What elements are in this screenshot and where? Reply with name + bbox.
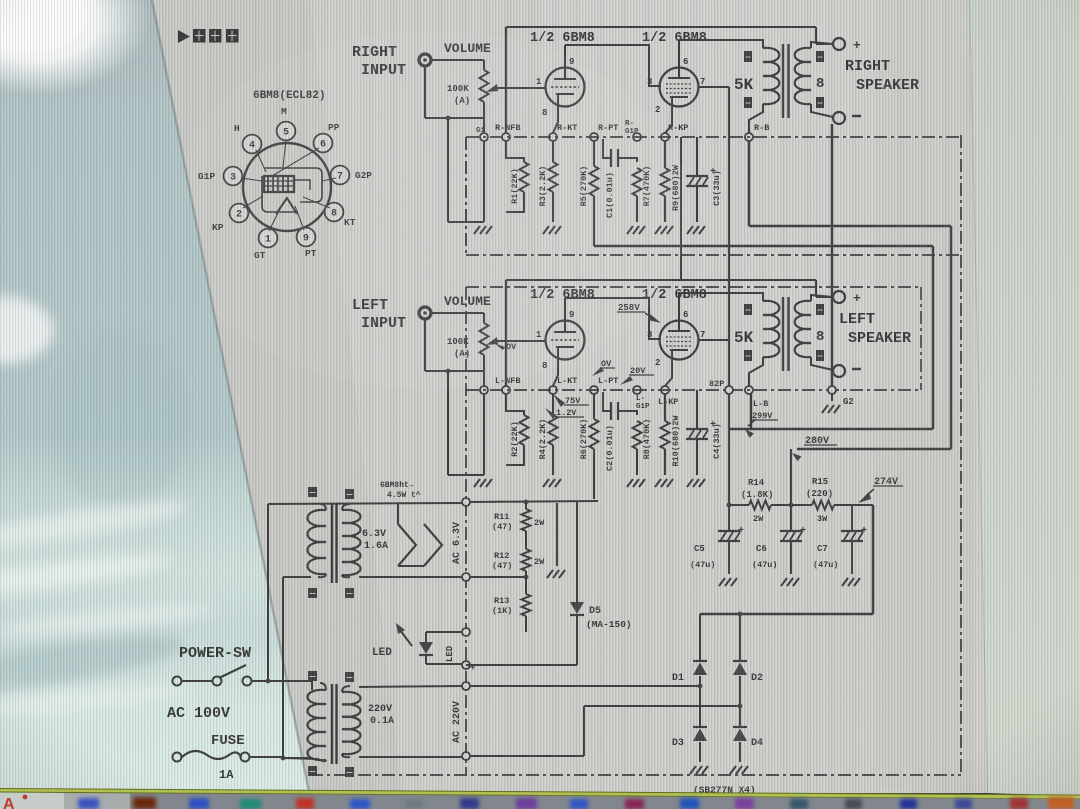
svg-text:A: A: [3, 796, 15, 809]
